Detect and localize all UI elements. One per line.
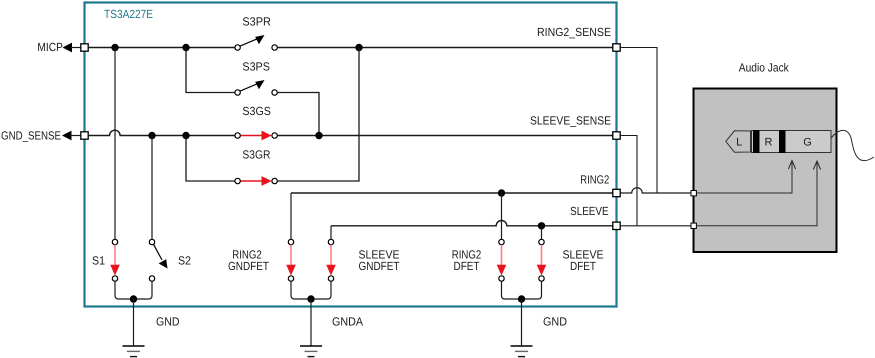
wire S3GR output up to MICP line xyxy=(277,48,359,182)
headphone cable squiggle xyxy=(831,130,874,160)
svg-text:Audio Jack: Audio Jack xyxy=(739,60,789,74)
wire RING2 to jack with hop over SLEEVE_SENSE vertical xyxy=(620,188,691,193)
svg-text:GND: GND xyxy=(543,315,567,329)
wire SLEEVE inside jack with up arrow to plug G contact xyxy=(696,161,820,226)
GND_SENSE input arrow xyxy=(62,131,72,141)
wire SLEEVE down to SLEEVE GNDFET xyxy=(330,226,332,240)
svg-text:GND_SENSE: GND_SENSE xyxy=(1,128,61,142)
wire SLEEVE_SENSE to SLEEVE net xyxy=(620,136,637,226)
svg-text:S1: S1 xyxy=(92,254,105,268)
wire RING2 inside jack with up arrow to plug R contact xyxy=(696,161,795,194)
wire GND stem 2 xyxy=(521,299,523,346)
wire MICP down to S1 xyxy=(114,48,116,240)
wire S1/S2 to GND junction xyxy=(115,281,152,299)
wire GND_SENSE with hop over S1 vertical xyxy=(88,130,237,135)
svg-text:L: L xyxy=(736,136,742,148)
switch S2 (open) xyxy=(149,239,167,281)
plug insulator band 2 xyxy=(779,130,786,153)
svg-text:MICP: MICP xyxy=(37,40,63,54)
switch S3GS (closed, red) xyxy=(235,131,277,141)
junction GND_SENSE/S2 xyxy=(148,132,155,139)
switch S1 (closed, red) xyxy=(110,239,120,281)
wire RING2 down to RING2 GNDFET xyxy=(290,193,292,240)
ground symbol 1 xyxy=(123,346,145,357)
wire DFETs to GND junction xyxy=(502,281,542,299)
wire SLEEVE horizontal inside chip with hop over RING2 DFET vertical xyxy=(331,221,613,226)
svg-text:GNDFET: GNDFET xyxy=(359,259,400,273)
Audio Jack enclosure xyxy=(694,89,837,253)
headphone plug body (R and G sections) xyxy=(752,131,832,153)
svg-text:S3GR: S3GR xyxy=(242,148,270,162)
FET RING2 DFET (closed, red) xyxy=(497,239,507,281)
switch S3PS (open) xyxy=(235,80,277,95)
wire RING2_SENSE to RING2 net xyxy=(620,48,657,194)
pin MICP xyxy=(81,44,88,51)
MICP input arrow xyxy=(63,43,73,53)
svg-text:G: G xyxy=(803,136,812,148)
svg-text:R: R xyxy=(765,136,773,148)
wire RING2 horizontal inside chip xyxy=(291,192,613,194)
junction GND_SENSE/S3GR feed xyxy=(182,132,189,139)
svg-text:RING2: RING2 xyxy=(580,172,609,186)
svg-text:S3GS: S3GS xyxy=(242,104,271,118)
junction MICP/S3PS feed xyxy=(182,44,189,51)
svg-text:S2: S2 xyxy=(178,254,191,268)
wire MICP horizontal xyxy=(88,47,237,49)
ground symbol GNDA xyxy=(300,346,322,357)
junction S1/S2 GND xyxy=(130,295,137,302)
svg-text:TS3A227E: TS3A227E xyxy=(104,7,153,21)
FET SLEEVE DFET (closed, red) xyxy=(537,239,547,281)
svg-text:DFET: DFET xyxy=(454,259,480,273)
svg-text:DFET: DFET xyxy=(570,259,596,273)
wire SLEEVE down to SLEEVE DFET xyxy=(541,226,543,240)
svg-text:SLEEVE: SLEEVE xyxy=(570,204,609,218)
junction SLEEVE/SLEEVE DFET xyxy=(538,222,545,229)
svg-text:GND: GND xyxy=(156,315,180,329)
wire RING2 down to RING2 DFET xyxy=(501,193,503,240)
FET SLEEVE GNDFET (closed, red) xyxy=(326,239,336,281)
svg-text:GNDFET: GNDFET xyxy=(228,259,269,273)
chip U1 TS3A227E boundary box xyxy=(85,3,617,307)
junction GNDA xyxy=(307,295,314,302)
wire GND_SENSE to S3GR xyxy=(186,136,235,182)
junction DFET GND xyxy=(518,295,525,302)
wire GNDFETs to GNDA junction xyxy=(291,281,331,299)
wire GND stem 1 xyxy=(133,299,135,346)
jack pin SLEEVE xyxy=(691,223,696,228)
svg-text:S3PS: S3PS xyxy=(242,59,270,73)
wire MICP to S3PS xyxy=(186,48,235,93)
junction RING2/RING2 DFET xyxy=(498,189,505,196)
junction MICP/S1 xyxy=(111,44,118,51)
svg-text:SLEEVE_SENSE: SLEEVE_SENSE xyxy=(530,113,611,127)
svg-text:RING2_SENSE: RING2_SENSE xyxy=(537,25,611,39)
pin SLEEVE xyxy=(613,222,620,229)
svg-text:GNDA: GNDA xyxy=(332,315,363,329)
wire GND_SENSE down to S2 xyxy=(151,136,153,240)
wire S3PS output to GND_SENSE line xyxy=(277,93,319,136)
svg-text:S3PR: S3PR xyxy=(242,15,271,29)
jack pin RING2 xyxy=(691,191,696,196)
junction MICP/S3GR output xyxy=(355,44,362,51)
wire GNDA stem xyxy=(310,299,312,346)
wire SLEEVE to jack xyxy=(620,225,691,227)
headphone plug tip (L) xyxy=(726,131,751,152)
pin GND_SENSE xyxy=(81,132,88,139)
switch S3GR (closed, red) xyxy=(235,176,277,186)
switch S3PR (open) xyxy=(235,35,277,50)
plug insulator band 1 xyxy=(753,130,760,153)
pin SLEEVE_SENSE xyxy=(613,132,620,139)
ground symbol 2 xyxy=(511,346,533,357)
pin RING2_SENSE xyxy=(613,44,620,51)
pin RING2 xyxy=(613,189,620,196)
wire S3GS output to SLEEVE_SENSE pin xyxy=(277,135,613,137)
FET RING2 GNDFET (closed, red) xyxy=(286,239,296,281)
junction S3GS/S3PS xyxy=(315,132,322,139)
